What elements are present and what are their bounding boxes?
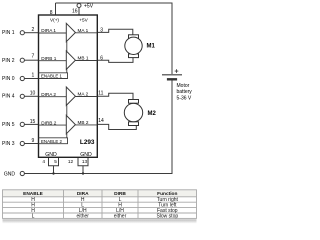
- svg-text:L293: L293: [80, 139, 95, 146]
- svg-text:GND: GND: [45, 152, 57, 158]
- svg-text:M1: M1: [147, 44, 156, 50]
- svg-text:PIN 5: PIN 5: [2, 122, 15, 128]
- svg-text:12: 12: [68, 159, 74, 164]
- svg-text:DIRA 2: DIRA 2: [41, 92, 56, 97]
- svg-text:PIN 3: PIN 3: [2, 141, 15, 147]
- svg-text:PIN 4: PIN 4: [2, 94, 15, 100]
- svg-text:V(+): V(+): [50, 18, 59, 23]
- svg-text:13: 13: [82, 159, 88, 164]
- svg-text:L: L: [32, 213, 35, 219]
- svg-text:10: 10: [30, 91, 36, 97]
- svg-text:M2: M2: [148, 111, 157, 117]
- svg-text:15: 15: [30, 119, 36, 125]
- svg-text:MA 1: MA 1: [78, 28, 89, 33]
- svg-text:Slow stop: Slow stop: [156, 213, 178, 219]
- svg-text:8: 8: [50, 10, 53, 16]
- svg-text:DIRB 2: DIRB 2: [41, 120, 57, 125]
- svg-text:5: 5: [54, 159, 57, 164]
- svg-text:6: 6: [100, 55, 103, 61]
- svg-text:MB 1: MB 1: [78, 56, 89, 61]
- svg-text:14: 14: [98, 118, 104, 124]
- svg-text:4: 4: [42, 159, 45, 164]
- svg-text:+5V: +5V: [84, 4, 94, 10]
- svg-text:DIRA 1: DIRA 1: [41, 28, 56, 33]
- svg-text:MA 2: MA 2: [78, 92, 89, 97]
- svg-text:GND: GND: [4, 171, 16, 177]
- svg-text:either: either: [76, 213, 89, 219]
- svg-text:3: 3: [100, 27, 103, 33]
- svg-text:2: 2: [32, 27, 35, 33]
- svg-text:GND: GND: [80, 152, 92, 158]
- svg-text:PIN 0: PIN 0: [2, 76, 15, 82]
- svg-text:1: 1: [32, 73, 35, 79]
- svg-text:either: either: [114, 213, 127, 219]
- svg-text:ENABLE 2: ENABLE 2: [41, 139, 62, 144]
- svg-text:+5V: +5V: [79, 18, 88, 23]
- svg-text:PIN 2: PIN 2: [2, 58, 15, 64]
- svg-text:MB 2: MB 2: [78, 120, 89, 125]
- svg-text:9: 9: [32, 138, 35, 144]
- svg-text:11: 11: [98, 91, 103, 97]
- svg-text:16: 16: [72, 9, 78, 15]
- svg-text:battery: battery: [177, 89, 193, 95]
- svg-text:PIN 1: PIN 1: [2, 30, 15, 36]
- svg-text:DIRB 1: DIRB 1: [41, 56, 57, 61]
- svg-text:ENABLE 1: ENABLE 1: [41, 74, 62, 79]
- svg-text:7: 7: [32, 54, 35, 60]
- svg-text:5-36 V: 5-36 V: [177, 95, 192, 101]
